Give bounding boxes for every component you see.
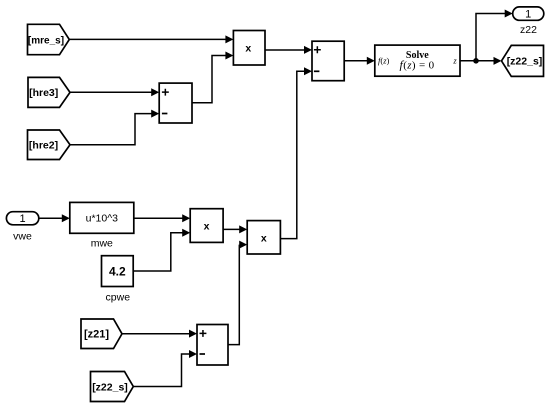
From tag [hre3] (28, 77, 70, 107)
wire inport to Fcn mwe (39, 214, 70, 222)
svg-text:vwe: vwe (13, 231, 32, 243)
svg-text:cpwe: cpwe (106, 292, 131, 304)
wire [z21] to Sum3 plus (122, 330, 197, 338)
wire Sum1 to Product1 (192, 52, 233, 103)
inport 1 (6, 212, 38, 225)
product block Product1 (233, 31, 265, 66)
sum block Sum3 (197, 325, 228, 366)
svg-text:4.2: 4.2 (109, 264, 126, 278)
svg-text:1: 1 (525, 8, 531, 20)
From tag [hre2] (28, 130, 71, 160)
From tag [mre_s] (28, 24, 70, 54)
wire [hre2] to Sum1 minus (70, 110, 159, 145)
svg-text:[mre_s]: [mre_s] (28, 35, 64, 46)
wire Product3 to Sum2 minus (280, 67, 312, 238)
svg-text:1: 1 (20, 213, 26, 225)
wire [mre_s] to Product1 (69, 35, 233, 43)
wire [z22_s] source to Sum3 minus (133, 350, 197, 387)
wire Solve output to Goto [z22_s] (460, 57, 502, 65)
svg-text:z22: z22 (520, 24, 537, 36)
svg-text:[hre3]: [hre3] (29, 87, 58, 99)
junction dot on Solve output (473, 58, 479, 64)
label cpwe (106, 292, 131, 304)
svg-text:[z21]: [z21] (84, 329, 109, 341)
wire Product1 to Sum2 plus (265, 46, 312, 54)
label z22 (520, 24, 537, 36)
wire Sum3 to Product3 (228, 241, 247, 345)
wire branch junction to Outport z22 (476, 10, 513, 61)
svg-text:z: z (452, 56, 457, 66)
wire constant 4.2 to Product2 (133, 229, 190, 271)
label vwe (13, 231, 32, 243)
svg-text:x: x (204, 221, 210, 233)
svg-text:u*10^3: u*10^3 (86, 213, 119, 225)
svg-text:mwe: mwe (91, 238, 113, 250)
svg-text:x: x (245, 42, 251, 54)
label mwe (91, 238, 113, 250)
constant block 4.2 (102, 256, 134, 287)
wire Sum2 to Solve block (344, 57, 375, 65)
wire [hre3] to Sum1 plus (70, 88, 159, 96)
algebraic constraint block Solve f(z)=0 (375, 45, 460, 76)
sum block Sum2 (312, 41, 344, 80)
product block Product3 (247, 221, 280, 254)
sum block Sum1 (159, 83, 192, 123)
svg-text:[z22_s]: [z22_s] (507, 56, 543, 68)
svg-text:[z22_s]: [z22_s] (92, 381, 128, 393)
product block Product2 (190, 209, 223, 243)
svg-text:[hre2]: [hre2] (29, 140, 58, 152)
outport 1 (513, 7, 544, 21)
From tag [z22_s] source (91, 372, 134, 402)
svg-text:f(z) = 0: f(z) = 0 (400, 58, 435, 72)
svg-text:x: x (261, 232, 267, 244)
wire Product2 to Product3 (223, 225, 247, 233)
svg-text:f(z): f(z) (378, 56, 390, 66)
wire Fcn mwe to Product2 (134, 214, 190, 222)
From tag [z21] (81, 319, 122, 349)
Goto tag [z22_s] (502, 45, 544, 76)
Fcn block u*10^3 (70, 202, 134, 233)
